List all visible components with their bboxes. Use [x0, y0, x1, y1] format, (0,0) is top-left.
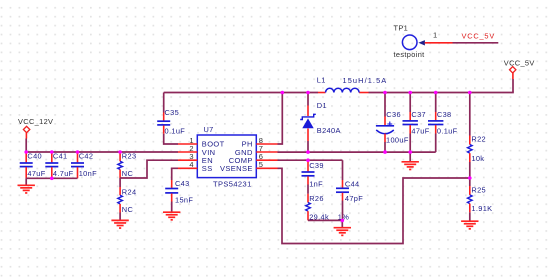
- svg-text:1.91K: 1.91K: [471, 204, 492, 213]
- svg-text:C35: C35: [165, 108, 180, 117]
- svg-text:4.7uF: 4.7uF: [53, 169, 74, 178]
- svg-text:5: 5: [259, 160, 263, 169]
- svg-text:TPS54231: TPS54231: [213, 179, 252, 188]
- svg-text:C43: C43: [175, 179, 190, 188]
- svg-text:R22: R22: [471, 135, 486, 144]
- pin 7 GND: [256, 144, 277, 153]
- svg-text:R24: R24: [122, 187, 137, 196]
- testpoint TP1: [394, 23, 425, 59]
- svg-text:0.1uF: 0.1uF: [437, 127, 458, 136]
- svg-text:R25: R25: [471, 186, 486, 195]
- pin 2 VIN: [178, 144, 197, 153]
- ground (GND rail): [402, 152, 419, 169]
- svg-text:C39: C39: [309, 161, 324, 170]
- node junction C41/ground rail: [50, 177, 54, 181]
- wire VSENSE feedback loop: [278, 168, 470, 243]
- node junction C42/input bus: [76, 150, 80, 154]
- svg-text:C37: C37: [411, 110, 426, 119]
- svg-text:VCC_5V: VCC_5V: [504, 59, 535, 68]
- node junction C37/bus: [408, 91, 412, 95]
- wire C35 to BOOT: [164, 134, 178, 144]
- svg-text:VCC_5V: VCC_5V: [462, 32, 496, 41]
- svg-text:47uF: 47uF: [411, 127, 429, 136]
- capacitor C40: [20, 152, 46, 179]
- wire comp network bottom: [308, 220, 342, 227]
- wire PH to output bus: [278, 93, 283, 145]
- capacitor C37: [403, 93, 430, 153]
- svg-text:C36: C36: [386, 110, 401, 119]
- resistor R24: [118, 178, 137, 220]
- node junction R22/bus: [468, 91, 472, 95]
- node junction C40/input bus: [24, 150, 28, 154]
- svg-text:C42: C42: [79, 152, 94, 161]
- node junction C39/COMP rail: [306, 158, 310, 162]
- svg-text:47uF: 47uF: [27, 169, 45, 178]
- pin 1 of TP1: [425, 31, 453, 43]
- wire COMP rail: [278, 159, 343, 161]
- pin 5 VSENSE: [256, 160, 277, 169]
- node junction C41/input bus: [50, 150, 54, 154]
- svg-text:15nF: 15nF: [175, 195, 193, 204]
- capacitor C38: [428, 93, 458, 153]
- node junction R22/R25 feedback: [468, 176, 472, 180]
- svg-text:VCC_12V: VCC_12V: [18, 117, 53, 126]
- svg-text:D1: D1: [317, 101, 327, 110]
- node junction C37/GND rail: [408, 150, 412, 154]
- svg-text:C44: C44: [345, 179, 360, 188]
- node junction comp ground: [341, 219, 345, 223]
- wire EN to divider: [120, 160, 178, 178]
- ground (C43): [163, 212, 180, 220]
- capacitor C43: [165, 179, 193, 212]
- svg-text:1: 1: [433, 31, 437, 40]
- svg-text:4: 4: [189, 160, 193, 169]
- resistor R22: [468, 93, 487, 179]
- node junction D1/bus: [306, 91, 310, 95]
- ground (input caps): [18, 185, 35, 193]
- svg-text:0.1uF: 0.1uF: [165, 126, 186, 135]
- capacitor C42: [71, 152, 97, 179]
- wire input caps ground rail: [26, 178, 77, 185]
- svg-text:1nF: 1nF: [309, 180, 323, 189]
- svg-text:B240A: B240A: [317, 126, 341, 135]
- resistor R26: [306, 185, 350, 222]
- resistor R25: [468, 178, 493, 221]
- resistor R23: [118, 152, 137, 178]
- power port VCC_12V: [18, 117, 53, 152]
- svg-text:testpoint: testpoint: [394, 50, 425, 59]
- wire top output bus: [164, 92, 514, 94]
- ground (comp network): [334, 228, 351, 236]
- wire net VCC_5V stub at TP1: [453, 42, 499, 44]
- svg-text:15uH/1.5A: 15uH/1.5A: [343, 76, 388, 85]
- svg-text:100uF: 100uF: [386, 135, 409, 144]
- node junction C36/bus: [383, 91, 387, 95]
- svg-text:R23: R23: [122, 152, 137, 161]
- wire VIN input bus: [26, 151, 178, 153]
- svg-text:C41: C41: [53, 152, 68, 161]
- svg-text:C40: C40: [27, 152, 42, 161]
- capacitor C44: [336, 160, 363, 220]
- pin 6 COMP: [256, 152, 277, 161]
- power port VCC_5V: [504, 59, 535, 93]
- svg-text:R26: R26: [309, 194, 324, 203]
- svg-text:VSENSE: VSENSE: [220, 164, 253, 173]
- node junction R23/input bus: [118, 150, 122, 154]
- node junction D1/GND rail: [306, 150, 310, 154]
- node junction C38/bus: [434, 91, 438, 95]
- capacitor C36 (electrolytic): [376, 93, 409, 153]
- ground (R24): [111, 220, 128, 228]
- svg-text:47pF: 47pF: [345, 194, 363, 203]
- pin 8 PH: [256, 136, 277, 145]
- net label VCC_5V (red): [462, 32, 496, 41]
- pin 1 BOOT: [178, 136, 197, 145]
- svg-text:U7: U7: [204, 125, 214, 134]
- svg-text:10nF: 10nF: [79, 169, 97, 178]
- svg-text:TP1: TP1: [394, 23, 409, 32]
- wire GND rail: [278, 151, 436, 153]
- inductor L1: [317, 76, 388, 93]
- node junction C36/GND rail: [383, 150, 387, 154]
- svg-text:10k: 10k: [471, 154, 484, 163]
- node junction PH/bus: [281, 91, 285, 95]
- ground (R25): [461, 221, 478, 229]
- svg-text:L1: L1: [317, 76, 326, 85]
- capacitor C35: [157, 93, 185, 136]
- diode D1 (schottky B240A): [300, 101, 341, 135]
- svg-text:SS: SS: [202, 164, 213, 173]
- IC U7 TPS54231: [197, 125, 256, 189]
- wire SS to C43: [172, 168, 178, 180]
- svg-text:NC: NC: [122, 205, 134, 214]
- capacitor C41: [45, 152, 73, 179]
- wire D1 branch: [307, 93, 309, 153]
- svg-text:NC: NC: [122, 169, 134, 178]
- capacitor C39: [302, 160, 324, 188]
- svg-text:C38: C38: [437, 110, 452, 119]
- pin 3 EN: [178, 152, 197, 161]
- pin 4 SS: [178, 160, 197, 169]
